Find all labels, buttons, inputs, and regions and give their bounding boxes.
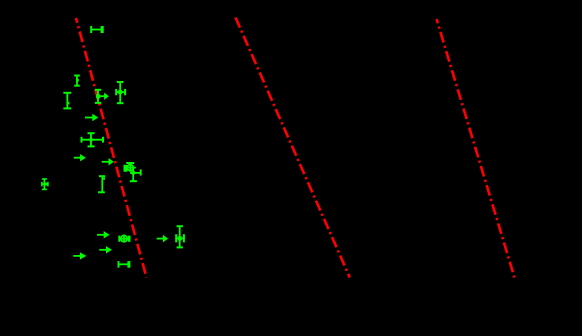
- data point 7: xy-errorbar cross: [81, 133, 103, 146]
- data point 1: x-errorbar with marker: [91, 26, 104, 33]
- model line panel 3 (red dash-dot): [437, 19, 515, 278]
- limit arrow 9: [102, 158, 114, 165]
- limit arrow 15: [99, 246, 112, 253]
- data point 14: circled-plus with x-errorbar: [119, 235, 130, 243]
- data point 2: small y-errorbar: [74, 76, 80, 86]
- limit arrow 8: [74, 154, 86, 161]
- data point 10a: circle marker with errorbars: [124, 163, 136, 172]
- data point 17: x-errorbar with marker: [119, 261, 131, 268]
- data point 11: y-errorbar: [98, 176, 105, 192]
- limit arrow 18: [157, 235, 168, 243]
- model line panel 1 (red dash-dot): [76, 18, 147, 278]
- data point 18: xy-errorbar: [176, 226, 184, 247]
- data point 12: small xy cross: [42, 179, 48, 189]
- model line panel 2 (red dash-dot): [236, 18, 350, 278]
- limit arrow 6: [85, 114, 98, 121]
- data point 10b: errorbar point overlapping: [130, 169, 141, 182]
- data point 4: y-errorbar with right arrow (limit): [95, 90, 109, 103]
- data point 5: xy-errorbar cross: [116, 82, 125, 103]
- limit arrow 16: [73, 252, 86, 259]
- limit arrow 13: [97, 231, 110, 238]
- data point 3: y-errorbar: [63, 93, 71, 109]
